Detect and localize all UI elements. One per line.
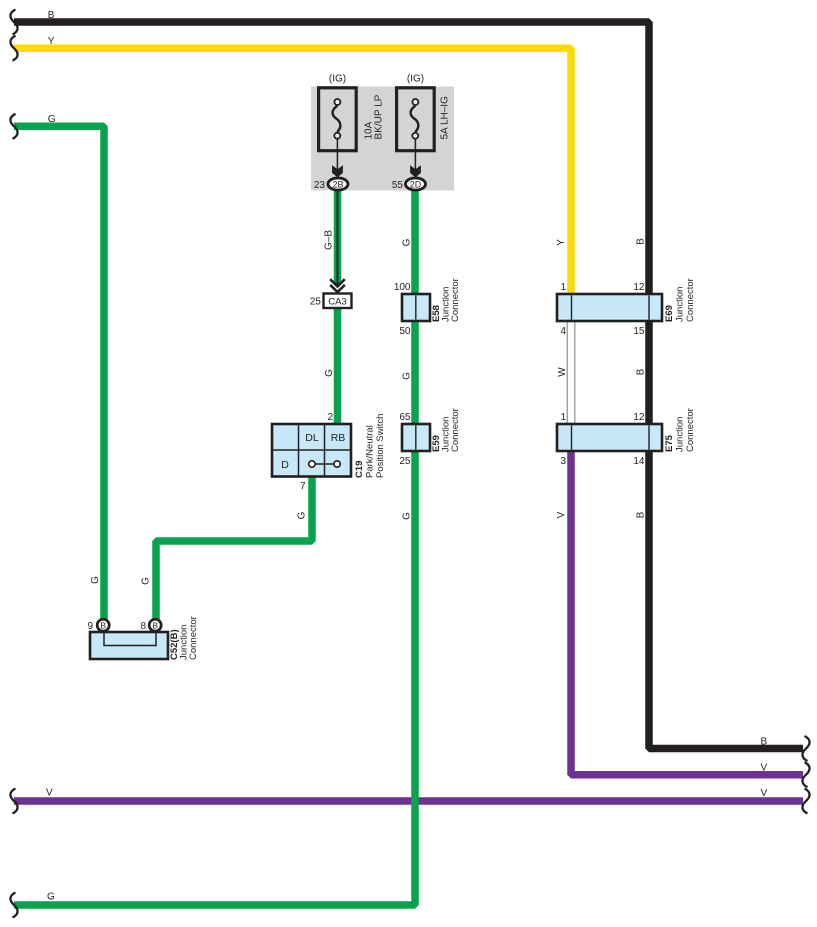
svg-text:2B: 2B <box>332 179 343 189</box>
svg-text:G: G <box>141 577 152 585</box>
svg-text:E75: E75 <box>664 434 675 452</box>
continuation squiggle right V upper <box>802 762 809 787</box>
svg-text:14: 14 <box>633 456 645 467</box>
wire V long bottom horizontal <box>14 797 803 805</box>
svg-text:3: 3 <box>560 456 566 467</box>
junction connector E69 <box>557 294 662 321</box>
svg-text:12: 12 <box>633 412 645 423</box>
wire G: C19 pin 7 down, left, down to C52 pin 8 <box>156 475 312 620</box>
svg-text:G: G <box>90 576 101 584</box>
svg-text:V: V <box>761 763 768 774</box>
wire B main: top horizontal, right vertical, bottom-right horizontal <box>14 22 803 749</box>
svg-text:Connector: Connector <box>450 278 461 322</box>
wire G long: from fuse 2D oval down through E58/E59 to bottom-left edge <box>14 188 415 905</box>
fuse F2 5A LH-IG body <box>397 88 435 151</box>
svg-text:B: B <box>636 511 647 518</box>
C52 terminal 8 circle B <box>149 619 161 631</box>
svg-text:100: 100 <box>394 282 411 293</box>
svg-text:V: V <box>46 788 53 799</box>
svg-text:8: 8 <box>140 621 146 632</box>
svg-text:G: G <box>47 892 55 903</box>
svg-text:B: B <box>152 620 158 630</box>
wire G left: from left edge to down into C52 pin 9 <box>14 126 104 620</box>
svg-text:(IG): (IG) <box>329 74 346 85</box>
svg-text:G: G <box>48 114 56 125</box>
wire G-B: from 2B oval down to CA3 chevron (green with black stripe) <box>334 188 342 285</box>
svg-text:BK/UP LP: BK/UP LP <box>374 94 385 139</box>
switch contacts inside C19 <box>312 463 337 465</box>
svg-text:65: 65 <box>399 412 411 423</box>
svg-text:B: B <box>48 10 55 21</box>
svg-text:25: 25 <box>310 297 322 308</box>
svg-text:W: W <box>557 367 568 377</box>
connector oval 2B pin 23 <box>328 178 348 190</box>
svg-text:25: 25 <box>399 456 411 467</box>
svg-text:Y: Y <box>48 36 55 47</box>
svg-text:(IG): (IG) <box>407 74 424 85</box>
svg-text:55: 55 <box>392 180 404 191</box>
svg-text:9: 9 <box>87 621 93 632</box>
junction connector E58 <box>402 294 430 321</box>
svg-text:Connector: Connector <box>450 408 461 452</box>
svg-text:12: 12 <box>633 282 645 293</box>
junction connector E75 <box>557 424 662 451</box>
svg-text:Connector: Connector <box>188 616 199 660</box>
svg-text:G: G <box>324 369 335 377</box>
wire V from E75 pin 3 down then right <box>571 450 803 775</box>
wire W white between E69 pin 4 and E75 pin 1 <box>567 320 575 424</box>
svg-text:Position Switch: Position Switch <box>375 414 386 478</box>
svg-text:B: B <box>636 238 647 245</box>
svg-text:Y: Y <box>556 239 567 246</box>
C52 terminal 9 circle B <box>97 619 109 631</box>
svg-text:V: V <box>761 788 768 799</box>
svg-text:15: 15 <box>633 326 645 337</box>
svg-text:V: V <box>556 511 567 518</box>
continuation squiggle right V lower <box>802 789 809 814</box>
connector oval 2D pin 55 <box>406 178 426 190</box>
junction connector C52(B) <box>90 632 168 659</box>
svg-text:Junction: Junction <box>675 287 686 322</box>
svg-text:2D: 2D <box>410 179 422 189</box>
continuation squiggle left G bottom <box>10 893 17 918</box>
wire Y: top horizontal then down to E69 pin 1 <box>14 48 571 296</box>
svg-text:23: 23 <box>314 180 326 191</box>
svg-text:Connector: Connector <box>685 408 696 452</box>
svg-text:CA3: CA3 <box>328 296 346 307</box>
svg-text:G: G <box>402 512 413 520</box>
svg-text:2: 2 <box>327 412 333 423</box>
svg-text:Park/Neutral: Park/Neutral <box>364 425 375 478</box>
fuse panel gray background <box>311 87 454 191</box>
svg-text:Junction: Junction <box>675 417 686 452</box>
svg-text:B: B <box>636 368 647 375</box>
svg-text:DL: DL <box>305 432 319 444</box>
continuation squiggle left G <box>10 114 17 139</box>
fuse F2 lead and arrow to 2D <box>414 139 416 170</box>
fuse F1 10A BK/UP LP body <box>319 88 357 151</box>
svg-text:1: 1 <box>560 282 566 293</box>
wire G: CA3 to C19 pin 2 <box>334 307 342 426</box>
svg-text:B: B <box>100 620 106 630</box>
continuation squiggle left B <box>10 10 17 35</box>
svg-text:G: G <box>402 372 413 380</box>
continuation squiggle left Y <box>10 36 17 61</box>
svg-text:D: D <box>281 459 289 471</box>
svg-text:RB: RB <box>331 432 346 444</box>
junction connector E59 <box>402 424 430 451</box>
svg-text:5A LH–IG: 5A LH–IG <box>440 96 451 140</box>
svg-text:1: 1 <box>560 412 566 423</box>
svg-text:7: 7 <box>300 481 306 492</box>
svg-text:4: 4 <box>560 326 566 337</box>
svg-text:B: B <box>761 737 768 748</box>
continuation squiggle left V <box>10 789 17 814</box>
continuation squiggle right B <box>802 736 809 761</box>
svg-text:G: G <box>296 511 307 519</box>
svg-text:50: 50 <box>399 326 411 337</box>
connector CA3 pin 25 <box>324 294 352 309</box>
svg-text:Connector: Connector <box>685 278 696 322</box>
chevron arrow into CA3 <box>330 279 345 292</box>
svg-text:E69: E69 <box>664 305 675 322</box>
svg-text:G: G <box>402 238 413 246</box>
svg-text:G–B: G–B <box>323 230 334 250</box>
fuse F1 lead and arrow to 2B <box>336 139 338 170</box>
park/neutral position switch C19 <box>272 424 351 477</box>
